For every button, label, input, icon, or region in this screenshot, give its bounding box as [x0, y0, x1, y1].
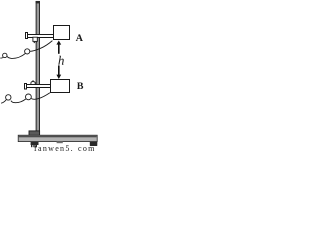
svg-text:fanwen5.: fanwen5.: [34, 144, 74, 152]
top clamp end cap: [26, 33, 28, 39]
top wire coil loop: [25, 49, 30, 54]
h arrow upper shaft: [58, 44, 60, 54]
stand rod: [36, 1, 39, 131]
bottom wire left segment: [11, 99, 26, 103]
top wire left segment: [7, 54, 25, 59]
bottom clamp knob nub: [32, 81, 34, 82]
top clamp bar: [26, 35, 55, 38]
label A: [76, 34, 83, 41]
rod top cap: [36, 1, 40, 3]
base bar: [18, 135, 97, 141]
label h: [58, 56, 63, 65]
bottom clamp knob: [31, 82, 35, 85]
photogate box B: [51, 80, 70, 93]
label B: [77, 82, 83, 89]
top wire end loop: [3, 53, 7, 57]
base clamp foot: [31, 142, 39, 145]
h arrow down head: [56, 75, 61, 79]
bottom wire from box B: [31, 93, 50, 99]
top clamp knob ticks: [34, 42, 35, 44]
base clamp foot teeth: [31, 145, 32, 147]
top clamp knob: [33, 37, 37, 41]
bottom wire end loop: [6, 95, 11, 100]
bottom clamp end cap: [25, 84, 27, 90]
base bar top band: [19, 136, 97, 138]
base rod block: [29, 131, 40, 136]
h arrow lower shaft: [58, 65, 60, 75]
base right foot: [90, 142, 98, 146]
top wire end tail: [0, 56, 3, 59]
top wire from box A: [30, 41, 53, 52]
base middle tab: [57, 142, 63, 144]
bottom wire coil loop: [26, 94, 32, 100]
photogate box A: [54, 26, 70, 40]
h arrow up head: [56, 41, 61, 45]
bottom wire end tail: [1, 100, 6, 104]
bottom clamp bar: [25, 85, 51, 88]
